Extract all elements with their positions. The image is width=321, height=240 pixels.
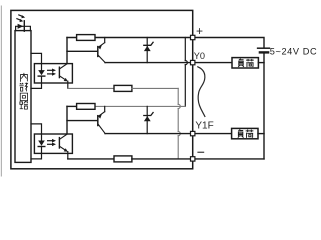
LED light arrows <box>17 15 25 22</box>
LED indicator bump on box top <box>16 26 31 30</box>
wire: optocoupler 2 cathode return <box>31 153 42 159</box>
wire: emitter feedback line channel 1 (gray) <box>68 87 114 89</box>
optocoupler U2 light arrows <box>48 139 56 146</box>
zener diode Z2 <box>144 106 153 133</box>
label 負荷 load 1 (drawn glyphs) <box>238 59 254 67</box>
wire: emitter drop channel 1 <box>67 81 69 88</box>
wire: optocoupler 1 cathode return <box>31 83 42 88</box>
transistor Q1 (PNP output) <box>98 38 105 63</box>
resistor R4 (emitter feedback) <box>114 156 132 162</box>
wire: emitter feedback vertical drop (gray, hops two lines) <box>178 88 180 158</box>
wire: +V rail channel 1 <box>67 37 193 39</box>
svg-text:+: + <box>196 24 203 38</box>
resistor R1 <box>77 35 95 41</box>
wire: Y1F output line <box>105 133 193 135</box>
internal circuit box (内部回路) <box>15 31 31 163</box>
wire: vertical base feed channel 2 <box>66 106 68 134</box>
wire: feed from internal circuit to optocoupler 2 anode <box>31 124 42 134</box>
optocoupler U1 phototransistor <box>59 64 68 82</box>
svg-text:Y1F: Y1F <box>195 121 213 132</box>
optocoupler U1 LED <box>38 64 45 83</box>
svg-text:Y0: Y0 <box>194 51 205 61</box>
wire: feed from internal circuit to optocoupler 1 anode <box>31 53 42 63</box>
wire: emitter feedback to right (gray) <box>132 87 178 89</box>
wire: emitter drop channel 2 <box>67 152 69 159</box>
wire: minus line left of resistor <box>68 158 114 160</box>
wire: vertical base feed channel 1 <box>66 38 68 64</box>
wire: + rail to battery <box>193 38 264 48</box>
label 負荷 load 2 (drawn glyphs) <box>238 129 254 137</box>
LED indicator diode <box>18 21 25 31</box>
wire: minus line to terminal <box>132 158 193 160</box>
wire: base line channel 2 <box>67 120 97 122</box>
optocoupler U2 phototransistor <box>59 134 68 152</box>
resistor R2 (emitter feedback) <box>114 85 132 91</box>
load box 2 (負荷) <box>232 128 258 138</box>
terminal node + <box>191 35 195 39</box>
svg-text:5~24V DC: 5~24V DC <box>270 47 317 57</box>
resistor R3 <box>77 104 95 110</box>
wire: Y1F to load 2 <box>193 133 232 135</box>
optocoupler U2 box <box>34 134 72 153</box>
label minus <box>197 151 204 153</box>
wire: battery negative down to minus line <box>263 54 265 159</box>
terminal node minus <box>191 157 195 161</box>
wire: load 2 to battery column <box>258 133 264 135</box>
optocoupler U2 LED <box>38 134 45 153</box>
module frame <box>11 10 193 168</box>
continuation squiggle <box>198 67 205 117</box>
wire: minus line outside <box>193 158 264 160</box>
wire: Y0 to load 1 <box>193 62 232 64</box>
page border line (left) <box>0 6 2 176</box>
wire: +V rail channel 2 <box>67 105 77 107</box>
transistor Q2 (PNP output) <box>98 106 105 133</box>
optocoupler U1 light arrows <box>48 69 56 76</box>
wire: +V feed to channel 2 (hops Y0 line) <box>185 38 187 107</box>
zener diode Z1 <box>144 38 153 63</box>
wire: base line channel 1 <box>67 50 97 52</box>
optocoupler U1 box <box>34 64 72 83</box>
battery 5~24V DC <box>258 48 270 52</box>
wire: Y0 output line <box>105 62 193 64</box>
terminal node Y0 <box>191 60 195 64</box>
label 内部回路 (drawn glyphs) <box>19 73 27 109</box>
load box 1 (負荷) <box>232 58 258 68</box>
terminal node Y1F <box>191 131 195 135</box>
wire: load 1 to battery column <box>258 62 264 64</box>
